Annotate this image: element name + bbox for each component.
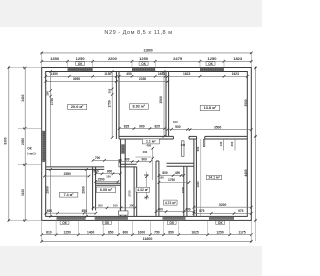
svg-text:650: 650 (47, 209, 53, 213)
svg-text:2900: 2900 (46, 186, 50, 194)
svg-text:1250: 1250 (76, 56, 86, 61)
svg-text:550: 550 (98, 204, 103, 208)
svg-text:130: 130 (219, 141, 223, 146)
svg-text:13.8 м²: 13.8 м² (204, 106, 217, 110)
svg-text:1350: 1350 (50, 56, 60, 61)
svg-text:810: 810 (46, 230, 52, 234)
svg-text:900: 900 (175, 125, 181, 129)
svg-text:1000: 1000 (138, 230, 146, 234)
svg-text:2330: 2330 (139, 77, 147, 81)
svg-text:825: 825 (124, 124, 130, 128)
svg-text:650: 650 (82, 209, 88, 213)
svg-text:11800: 11800 (143, 49, 152, 53)
svg-text:800: 800 (162, 171, 168, 175)
svg-text:1623: 1623 (232, 72, 240, 76)
svg-text:100: 100 (181, 143, 186, 147)
svg-text:100: 100 (144, 196, 149, 200)
svg-text:850: 850 (168, 230, 174, 234)
svg-text:4.72 м²: 4.72 м² (165, 201, 177, 205)
svg-text:100: 100 (113, 204, 118, 208)
svg-text:6.05 м²: 6.05 м² (100, 188, 113, 192)
svg-text:7.4 м²: 7.4 м² (64, 193, 75, 197)
svg-text:1400: 1400 (87, 230, 95, 234)
svg-text:1250: 1250 (208, 56, 218, 61)
svg-text:2475: 2475 (173, 56, 183, 61)
svg-text:8300: 8300 (4, 137, 8, 144)
svg-text:900: 900 (142, 157, 148, 161)
svg-text:1175: 1175 (238, 230, 245, 234)
svg-text:1750: 1750 (50, 98, 54, 106)
svg-text:20.6 м²: 20.6 м² (71, 105, 84, 109)
svg-text:ОК: ОК (27, 147, 31, 151)
svg-text:200: 200 (107, 88, 111, 93)
svg-text:400: 400 (185, 207, 191, 211)
svg-text:(тип1): (тип1) (27, 151, 35, 155)
svg-text:11800: 11800 (143, 237, 153, 241)
svg-text:8.92 м²: 8.92 м² (133, 105, 146, 109)
svg-text:1250: 1250 (216, 230, 224, 234)
svg-text:450: 450 (126, 72, 132, 76)
svg-text:4400: 4400 (244, 169, 248, 176)
svg-text:750: 750 (154, 230, 160, 234)
svg-text:1150: 1150 (104, 72, 111, 76)
svg-text:3430: 3430 (21, 94, 25, 101)
svg-text:850: 850 (108, 230, 114, 234)
svg-text:1400: 1400 (196, 181, 200, 188)
svg-text:1500: 1500 (97, 177, 104, 181)
svg-text:900: 900 (107, 169, 113, 173)
svg-text:5200: 5200 (219, 203, 227, 207)
svg-text:400: 400 (143, 150, 148, 154)
svg-text:2200: 2200 (181, 186, 185, 193)
svg-text:2550: 2550 (64, 172, 72, 176)
svg-text:1350: 1350 (51, 72, 59, 76)
svg-text:900: 900 (139, 124, 145, 128)
svg-text:1250: 1250 (139, 56, 149, 61)
svg-text:14.1 м²: 14.1 м² (208, 176, 220, 180)
svg-text:500: 500 (93, 169, 99, 173)
svg-text:3100: 3100 (21, 189, 25, 196)
svg-text:4.32 м²: 4.32 м² (137, 188, 149, 192)
svg-text:100: 100 (159, 176, 164, 180)
svg-text:2900: 2900 (82, 186, 86, 194)
svg-text:2200: 2200 (108, 56, 118, 61)
svg-text:1.1 м²: 1.1 м² (146, 140, 156, 144)
svg-text:800: 800 (123, 230, 129, 234)
svg-text:3950: 3950 (73, 77, 81, 81)
svg-text:975: 975 (238, 209, 244, 213)
svg-text:2050: 2050 (21, 138, 25, 145)
svg-text:900: 900 (196, 146, 200, 151)
svg-text:3500: 3500 (214, 125, 222, 129)
svg-text:2700: 2700 (127, 190, 131, 197)
svg-text:200: 200 (230, 141, 234, 146)
svg-text:3500: 3500 (244, 99, 248, 106)
svg-text:1625: 1625 (191, 230, 199, 234)
svg-text:700: 700 (95, 156, 101, 160)
svg-text:975: 975 (199, 209, 205, 213)
svg-text:1623: 1623 (183, 72, 191, 76)
svg-text:100: 100 (173, 120, 178, 124)
svg-text:1750: 1750 (168, 178, 175, 182)
svg-text:1250: 1250 (64, 230, 72, 234)
svg-text:825: 825 (154, 124, 160, 128)
svg-text:100: 100 (106, 174, 111, 178)
svg-text:200: 200 (129, 204, 134, 208)
svg-text:1823: 1823 (233, 56, 243, 61)
svg-text:1750: 1750 (107, 100, 111, 108)
svg-text:1500: 1500 (159, 96, 163, 104)
svg-text:400: 400 (158, 207, 164, 211)
svg-text:900: 900 (124, 157, 130, 161)
svg-text:450: 450 (175, 171, 181, 175)
svg-text:200: 200 (46, 91, 50, 96)
